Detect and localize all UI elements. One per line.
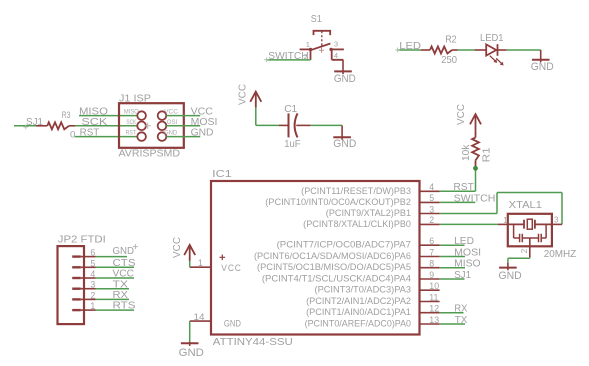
svg-text:10: 10 (429, 281, 439, 291)
svg-text:GND: GND (333, 138, 356, 150)
svg-text:MOSI: MOSI (454, 247, 481, 258)
svg-text:2: 2 (429, 215, 434, 225)
svg-text:R1: R1 (482, 147, 493, 162)
svg-text:4: 4 (429, 182, 434, 192)
svg-text:(PCINT7/ICP/OC0B/ADC7)PA7: (PCINT7/ICP/OC0B/ADC7)PA7 (277, 240, 411, 250)
svg-text:1: 1 (198, 258, 203, 268)
svg-text:2: 2 (90, 290, 95, 300)
svg-text:SJ1: SJ1 (454, 270, 471, 281)
svg-text:(PCINT10/INT0/OC0A/CKOUT)PB2: (PCINT10/INT0/OC0A/CKOUT)PB2 (265, 197, 411, 207)
svg-text:RST: RST (126, 130, 137, 137)
svg-text:MOSI: MOSI (191, 117, 218, 128)
svg-text:6: 6 (90, 248, 95, 258)
svg-text:5: 5 (429, 193, 434, 203)
svg-text:SCK: SCK (81, 117, 107, 128)
svg-text:VCC: VCC (456, 104, 467, 125)
svg-text:4: 4 (90, 269, 95, 279)
svg-text:VCC: VCC (113, 269, 135, 280)
svg-text:1: 1 (306, 40, 310, 49)
svg-text:2: 2 (304, 52, 308, 61)
svg-text:RX: RX (454, 304, 467, 315)
svg-text:(PCINT0/AREF/ADC0)PA0: (PCINT0/AREF/ADC0)PA0 (305, 319, 411, 329)
svg-text:XTAL1: XTAL1 (509, 200, 542, 211)
svg-text:10k: 10k (461, 144, 472, 161)
svg-text:GND: GND (191, 128, 214, 139)
svg-text:TX: TX (455, 315, 468, 326)
svg-text:5: 5 (90, 258, 95, 268)
svg-text:(PCINT8/XTAL1/CLKI)PB0: (PCINT8/XTAL1/CLKI)PB0 (303, 219, 411, 229)
svg-text:(PCINT5/OC1B/MISO/DO/ADC5)PA5: (PCINT5/OC1B/MISO/DO/ADC5)PA5 (257, 262, 411, 272)
svg-text:2: 2 (520, 248, 529, 253)
svg-text:11: 11 (429, 292, 438, 302)
svg-text:VCC: VCC (238, 84, 249, 105)
svg-text:GND: GND (334, 73, 356, 85)
svg-text:S1: S1 (311, 14, 322, 25)
svg-text:14: 14 (194, 312, 205, 322)
svg-text:SJ1: SJ1 (26, 117, 43, 128)
svg-text:(PCINT2/AIN1/ADC2)PA2: (PCINT2/AIN1/ADC2)PA2 (306, 296, 411, 306)
svg-text:VCC: VCC (164, 109, 178, 116)
svg-text:RST: RST (80, 128, 100, 139)
svg-text:12: 12 (429, 304, 439, 314)
svg-text:GND: GND (499, 270, 523, 282)
svg-text:250: 250 (441, 55, 457, 66)
svg-text:RX: RX (113, 290, 129, 301)
svg-text:AVRISPSMD: AVRISPSMD (119, 149, 181, 160)
svg-text:LED: LED (454, 236, 474, 247)
svg-text:LED1: LED1 (480, 33, 504, 44)
svg-text:VCC: VCC (221, 263, 242, 274)
svg-text:3: 3 (334, 39, 338, 48)
svg-text:RTS: RTS (113, 301, 136, 312)
svg-text:VCC: VCC (172, 237, 183, 258)
svg-text:TX: TX (113, 279, 129, 290)
svg-text:LED: LED (399, 41, 421, 52)
svg-text:0: 0 (70, 130, 75, 141)
svg-text:3: 3 (429, 204, 434, 214)
svg-text:GND: GND (224, 318, 241, 329)
svg-text:6: 6 (429, 236, 434, 246)
svg-text:J1 ISP: J1 ISP (119, 94, 151, 105)
svg-text:C1: C1 (284, 104, 297, 115)
svg-text:GND: GND (113, 246, 135, 257)
svg-text:(PCINT9/XTAL2)PB1: (PCINT9/XTAL2)PB1 (326, 208, 411, 218)
svg-text:RST: RST (453, 182, 474, 193)
svg-text:(PCINT3/T0/ADC3)PA3: (PCINT3/T0/ADC3)PA3 (315, 285, 412, 295)
svg-text:7: 7 (429, 247, 434, 257)
svg-text:1uF: 1uF (284, 139, 300, 150)
svg-text:SWITCH: SWITCH (454, 193, 496, 204)
svg-text:MISO: MISO (454, 259, 481, 270)
svg-text:(PCINT6/OC1A/SDA/MOSI/ADC6)PA6: (PCINT6/OC1A/SDA/MOSI/ADC6)PA6 (254, 251, 411, 261)
svg-text:IC1: IC1 (212, 169, 232, 180)
svg-text:GND: GND (531, 61, 554, 73)
svg-text:(PCINT4/T1/SCL/USCK/ADC4)PA4: (PCINT4/T1/SCL/USCK/ADC4)PA4 (262, 274, 411, 284)
svg-text:ATTINY44-SSU: ATTINY44-SSU (213, 337, 293, 348)
svg-text:OSI: OSI (167, 119, 178, 126)
svg-text:1: 1 (90, 301, 95, 311)
svg-text:8: 8 (429, 259, 434, 269)
svg-text:JP2 FTDI: JP2 FTDI (58, 235, 106, 246)
svg-text:1: 1 (503, 216, 508, 225)
svg-text:GND: GND (179, 347, 205, 359)
svg-text:9: 9 (429, 270, 434, 280)
svg-text:3: 3 (554, 216, 559, 225)
svg-text:4: 4 (334, 51, 338, 60)
svg-text:R3: R3 (62, 110, 71, 121)
svg-text:SCK: SCK (126, 119, 136, 126)
svg-text:CTS: CTS (113, 258, 136, 269)
svg-text:20MHZ: 20MHZ (544, 249, 577, 260)
svg-text:3: 3 (90, 280, 95, 290)
svg-text:(PCINT11/RESET/DW)PB3: (PCINT11/RESET/DW)PB3 (301, 186, 411, 196)
svg-text:MISO: MISO (124, 109, 139, 116)
svg-text:GND: GND (164, 130, 178, 137)
svg-text:(PCINT1/AIN0/ADC1)PA1: (PCINT1/AIN0/ADC1)PA1 (306, 307, 411, 317)
svg-text:13: 13 (429, 315, 439, 325)
svg-text:R2: R2 (445, 35, 457, 46)
